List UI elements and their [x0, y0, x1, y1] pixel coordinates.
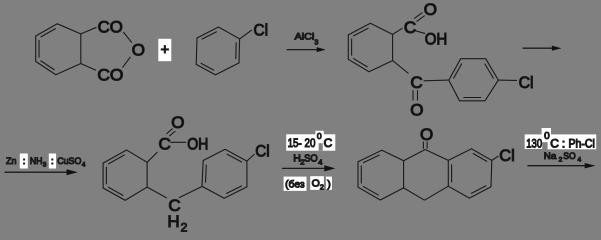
white box 15-20C — [286, 134, 335, 150]
bond ring to top CO — [81, 27, 97, 34]
bond ring to carboxyl C — [393, 28, 403, 34]
label AlCl3 catalyst — [295, 32, 319, 47]
svg-text:OH: OH — [425, 29, 448, 48]
svg-text:2: 2 — [181, 221, 188, 235]
svg-text:C: C — [550, 136, 559, 150]
svg-text:C: C — [404, 18, 416, 37]
highlighted colon 1 — [20, 154, 28, 169]
svg-text:H: H — [167, 212, 179, 231]
double bond C=O ketone — [413, 90, 418, 100]
gray notch under superscript — [319, 143, 323, 151]
white box superscript 0 — [315, 131, 323, 140]
svg-text:Ph-Cl: Ph-Cl — [569, 136, 595, 150]
double bond C=O of carboxyl — [167, 129, 176, 137]
svg-text:3: 3 — [315, 40, 319, 47]
svg-text:C: C — [159, 134, 171, 153]
double bond C=O of carboxyl — [414, 13, 425, 22]
white box 130 — [525, 134, 543, 149]
svg-text:130: 130 — [526, 136, 542, 150]
chlorophenyl ring of structure 4 — [202, 149, 247, 198]
reaction arrow 2 — [523, 46, 562, 51]
reaction arrow 3 — [5, 169, 78, 175]
chlorophenyl ring of structure 3 — [449, 59, 499, 101]
plus sign between reactants — [158, 39, 171, 61]
bond ring to Cl — [247, 154, 255, 161]
svg-text:4: 4 — [82, 161, 86, 168]
svg-text:Cl: Cl — [499, 146, 515, 165]
label C : Ph-Cl — [550, 136, 595, 150]
benzene ring of chlorobenzene — [196, 27, 239, 75]
svg-text:0: 0 — [544, 131, 550, 142]
svg-text:C: C — [410, 73, 422, 92]
svg-text:NH: NH — [30, 156, 43, 167]
svg-text:Zn: Zn — [6, 156, 16, 167]
bond ring to ketone C — [393, 61, 409, 74]
middle ring of chloroanthrone — [404, 150, 449, 201]
benzene ring of phthalic anhydride — [36, 24, 81, 75]
svg-text::: : — [51, 156, 54, 167]
benzoic ring of 2-(4-chlorobenzoyl)benzoic acid — [348, 23, 392, 71]
svg-text:O: O — [420, 125, 433, 144]
svg-text:3: 3 — [43, 161, 47, 168]
svg-text::: : — [562, 136, 565, 150]
bond C-OH — [170, 141, 186, 143]
highlighted colon 2 — [49, 154, 56, 169]
svg-text:2: 2 — [559, 157, 563, 164]
svg-text:15- 20: 15- 20 — [288, 136, 316, 150]
label NH3 — [30, 156, 47, 168]
svg-text:OH: OH — [187, 134, 208, 153]
label Na2SO4 — [544, 151, 582, 163]
svg-text:+: + — [161, 43, 169, 59]
bond ring to Cl — [498, 79, 517, 81]
svg-text:): ) — [327, 179, 331, 191]
svg-text:O: O — [312, 178, 320, 190]
svg-text:Na: Na — [544, 151, 557, 162]
label O2 — [312, 178, 324, 192]
svg-text:SO: SO — [304, 152, 318, 164]
label H2SO4 — [293, 152, 322, 166]
svg-text:4: 4 — [318, 158, 322, 167]
reaction arrow 5 — [527, 163, 595, 168]
svg-text:O: O — [132, 41, 145, 60]
label H of CH2 — [167, 212, 187, 234]
label CuSO4 — [57, 156, 86, 168]
svg-text:SO: SO — [563, 151, 576, 162]
white box closing paren — [326, 177, 332, 190]
left ring of chloroanthrone — [358, 150, 404, 200]
reaction arrow 1 — [287, 47, 326, 52]
svg-text:AlCl: AlCl — [295, 32, 315, 43]
double bond C=O of anthrone — [423, 142, 427, 149]
reaction arrow 4 — [282, 165, 335, 171]
svg-text:Cl: Cl — [255, 142, 269, 161]
right ring of chloroanthrone — [448, 149, 492, 198]
svg-text:C: C — [324, 136, 333, 150]
svg-text:O: O — [171, 113, 184, 132]
svg-text:O: O — [424, 0, 437, 19]
svg-text:CO: CO — [98, 17, 123, 36]
svg-text:0: 0 — [317, 131, 322, 141]
white box O2 — [310, 176, 324, 190]
white box superscript 0 — [542, 128, 551, 142]
bond ketone C to chlorophenyl — [424, 79, 449, 82]
bond bridging O to bottom CO — [123, 57, 131, 68]
bond ring to Cl — [492, 156, 499, 160]
white box (bez — [284, 177, 307, 191]
bond C-OH of carboxyl — [415, 31, 426, 34]
bond ring to carboxyl C — [147, 152, 157, 162]
benzoic ring of 2-(4-chlorobenzyl)benzoic acid — [103, 150, 147, 200]
svg-text:Cl: Cl — [254, 21, 269, 40]
svg-text:4: 4 — [578, 157, 582, 164]
bond CH2 to chlorophenyl — [179, 187, 202, 198]
svg-text::: : — [23, 156, 26, 167]
svg-text:CO: CO — [97, 66, 123, 85]
bond ring to CH2 — [147, 187, 167, 198]
white box C : Ph-Cl — [548, 134, 597, 149]
bond ring to Cl — [240, 30, 252, 39]
svg-text:2: 2 — [320, 183, 324, 192]
svg-text:O: O — [410, 101, 423, 120]
svg-text:CuSO: CuSO — [57, 156, 81, 167]
svg-text:(без: (без — [285, 179, 305, 191]
bond ring to bottom CO — [81, 64, 96, 71]
bond top CO to bridging O — [123, 32, 132, 43]
svg-text:Cl: Cl — [519, 73, 534, 92]
